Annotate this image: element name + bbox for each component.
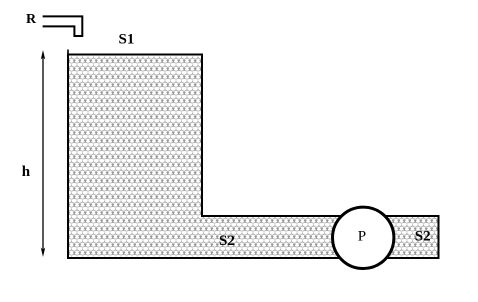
svg-text:P: P bbox=[358, 229, 366, 245]
corner tick above top-left bbox=[67, 50, 69, 55]
circle P bbox=[333, 207, 394, 268]
h dimension arrow bbox=[42, 56, 44, 251]
R leader hook bbox=[43, 16, 83, 36]
L-shaped hatched region bbox=[68, 55, 439, 259]
svg-text:h: h bbox=[22, 164, 31, 180]
arrowhead bottom bbox=[41, 248, 45, 258]
svg-text:S2: S2 bbox=[219, 233, 235, 249]
svg-text:R: R bbox=[26, 12, 37, 27]
svg-text:S2: S2 bbox=[415, 229, 431, 245]
arrowhead top bbox=[41, 50, 45, 60]
svg-text:S1: S1 bbox=[119, 32, 135, 48]
